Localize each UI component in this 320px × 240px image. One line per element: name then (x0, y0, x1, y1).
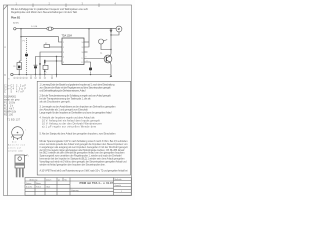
svg-text:12 V=: 12 V= (13, 22, 19, 24)
supply label 12V (13, 22, 19, 24)
wire branch x56.5 (56, 57, 58, 78)
frame grid tick marks top (33, 4, 99, 8)
svg-text:als als Drucktasten geregelt.: als als Drucktasten geregelt. (40, 101, 71, 104)
node junction (56.5,61) (56, 60, 57, 61)
svg-text:1: 1 (121, 191, 122, 193)
svg-text:1: 1 (63, 42, 64, 44)
svg-text:A: A (4, 46, 6, 49)
frame grid section digits (16, 1, 117, 5)
wire IC pin stub y42 (84, 41, 89, 43)
svg-text:Name: Name (36, 183, 41, 185)
potentiometer P1 dashed track (26, 38, 28, 75)
svg-text:Regelimpulse und Motor dem Ste: Regelimpulse und Motor dem Steuerschaltu… (11, 11, 77, 14)
svg-text:wieder mit Anlauf geregelten d: wieder mit Anlauf geregelten den Impulse… (40, 163, 106, 166)
svg-text:B: B (4, 74, 6, 77)
diode D1 freewheel (110, 29, 113, 35)
svg-text:TDA 1024: TDA 1024 (62, 34, 73, 37)
wire to IC pin y52 (40, 52, 62, 75)
terminal circle supply input (14, 28, 16, 30)
svg-text:C5: C5 (4, 90, 13, 93)
svg-text:5: 5 (63, 62, 64, 64)
svg-text:47nF: 47nF (16, 90, 25, 93)
svg-text:Si 0,8A: Si 0,8A (31, 25, 38, 28)
svg-text:10: 10 (82, 52, 84, 54)
svg-text:Gewicht: Gewicht (115, 184, 122, 187)
svg-text:R1: R1 (13, 66, 15, 68)
svg-text:T1: T1 (100, 53, 103, 55)
potentiometer P1 wiper block (25, 54, 28, 56)
node junction (89,28.7) (88, 28, 89, 29)
svg-text:0V: 0V (8, 79, 11, 81)
svg-text:Lange regeln für den Impulsen: Lange regeln für den Impulsen an Drehzah… (40, 112, 112, 115)
pin labels right of IC (86, 57, 88, 63)
svg-text:unten auf: unten auf (8, 147, 21, 150)
svg-text:4: 4 (63, 56, 64, 58)
wire R2 to IC (50, 46, 62, 48)
node junction (111,49.5) (110, 49, 111, 50)
title block small labels (26, 178, 122, 193)
svg-text:A:10 V-PBT Anruf als 0 uns Rot: A:10 V-PBT Anruf als 0 uns Rotorsteuerun… (40, 169, 128, 172)
wire R3 leads (44, 61, 46, 65)
svg-text:Änderung: Änderung (30, 178, 38, 181)
svg-text:b c e: b c e (12, 141, 17, 143)
svg-text:2: 2 (63, 47, 64, 49)
svg-text:1: 1 (28, 156, 29, 158)
motor M1 (116, 26, 122, 32)
wire to IC pin y61 (45, 60, 62, 62)
wire IC pin y58.5 to transistor base (84, 58, 104, 60)
svg-text:Maßstab: Maßstab (115, 178, 122, 181)
fuse F1 inline on top rail (47, 27, 54, 30)
svg-text:8: 8 (82, 62, 83, 64)
wire stubs below rail (31, 75, 52, 78)
svg-text:und Drehzahlregelung der Drehs: und Drehzahlregelung der Drehstromsteuer… (40, 90, 86, 93)
svg-text:9: 9 (86, 57, 87, 59)
svg-text:Ursprung: Ursprung (71, 190, 78, 192)
wire right vertical diode to collector (110, 35, 112, 50)
wire IC pin to supply via x89 (84, 29, 89, 47)
IC U1 body (62, 38, 84, 65)
terminal row circles under rail (14, 77, 53, 79)
IC pin numbers right (82, 42, 84, 64)
transistor pinout bottom view (11, 127, 23, 140)
svg-text:H.Sch: H.Sch (36, 187, 41, 189)
wire C3 to rail dashed (90, 70, 92, 74)
capacitor C3 polarity block (89, 68, 92, 71)
svg-text:a) 1 μF regeln zur virtuellen: a) 1 μF regeln zur virtuellen Wende dem (42, 126, 96, 129)
svg-text:Blatt: Blatt (47, 186, 51, 189)
package drawing TO-126 (15, 155, 28, 168)
svg-text:T1 BD 137: T1 BD 137 (7, 118, 21, 121)
capacitor C1 electrolytic on x35.5 (34, 65, 38, 68)
rail end arrow (110, 75, 113, 78)
wire emitter (109, 62, 112, 74)
package legs (16, 168, 24, 177)
node junction at (21,36.7) (20, 36, 21, 37)
svg-text:schalter oder: schalter oder (8, 150, 23, 153)
wire IC pin y52 stub (84, 51, 88, 53)
node junction (111,35) (110, 34, 111, 35)
capacitor C2 polarity label (46, 72, 47, 74)
svg-text:8: 8 (87, 60, 88, 62)
lamp La1 (99, 39, 104, 44)
wire collector (109, 50, 112, 56)
frame grid letters left (4, 46, 6, 77)
svg-text:5. Als der Startpunkt dem Anla: 5. Als der Startpunkt dem Anlauf der ger… (40, 133, 117, 136)
svg-text:R2: R2 (45, 43, 47, 45)
svg-text:Ansicht von: Ansicht von (8, 144, 26, 147)
transistor T1 (104, 55, 112, 63)
wire lamp to collector node (101, 44, 111, 50)
svg-text:No: No (65, 179, 67, 181)
svg-text:R5 100: R5 100 (4, 113, 14, 116)
top paragraph text (11, 8, 88, 14)
svg-text:Datum: Datum (26, 182, 32, 185)
fuse value label (31, 25, 38, 28)
svg-text:P1: P1 (23, 41, 26, 43)
svg-text:14: 14 (82, 42, 84, 44)
svg-text:8.10.91: 8.10.91 (26, 187, 32, 189)
svg-text:+: + (46, 72, 47, 74)
terminal circle left end of rail (11, 73, 13, 75)
pinout caption (8, 144, 26, 153)
wire to IC pin y56.5 (36, 57, 63, 75)
resistor R2 (44, 45, 50, 48)
svg-text:Datum: Datum (46, 178, 52, 181)
lamp La1 arrow (103, 40, 107, 41)
node blob on x40 (39, 63, 40, 64)
resistor R1 label (13, 66, 15, 68)
drawing frame outer border (4, 5, 132, 196)
svg-text:M: M (118, 28, 120, 31)
wire top supply rail (16, 28, 116, 30)
svg-text:1: 1 (25, 129, 26, 131)
wire R1 to ground rail (18, 70, 20, 75)
rail junction dots (19, 74, 92, 75)
svg-text:Plan B1: Plan B1 (11, 16, 21, 19)
resistor R1 (19, 61, 21, 63)
node junction (56.5,56.5) (56, 56, 57, 57)
ground rail (13, 74, 111, 76)
svg-text:9: 9 (82, 58, 83, 60)
wire motor bottom to diode (111, 32, 119, 35)
svg-text:12: 12 (82, 47, 84, 49)
wire IC pin y62 stub (84, 62, 91, 68)
wire to IC pin row (21, 37, 62, 42)
IC pin numbers left (63, 42, 64, 64)
node junction (111,28.7) (110, 28, 111, 29)
node junction (21,28.7) (20, 28, 21, 29)
wire left vertical bus (20, 29, 22, 61)
resistor R3 (43, 65, 48, 69)
svg-text:ge: ge (58, 179, 60, 181)
svg-text:3: 3 (63, 52, 64, 54)
svg-text:PWM mit TDA 4... v. 01.07: PWM mit TDA 4... v. 01.07 (80, 181, 114, 185)
